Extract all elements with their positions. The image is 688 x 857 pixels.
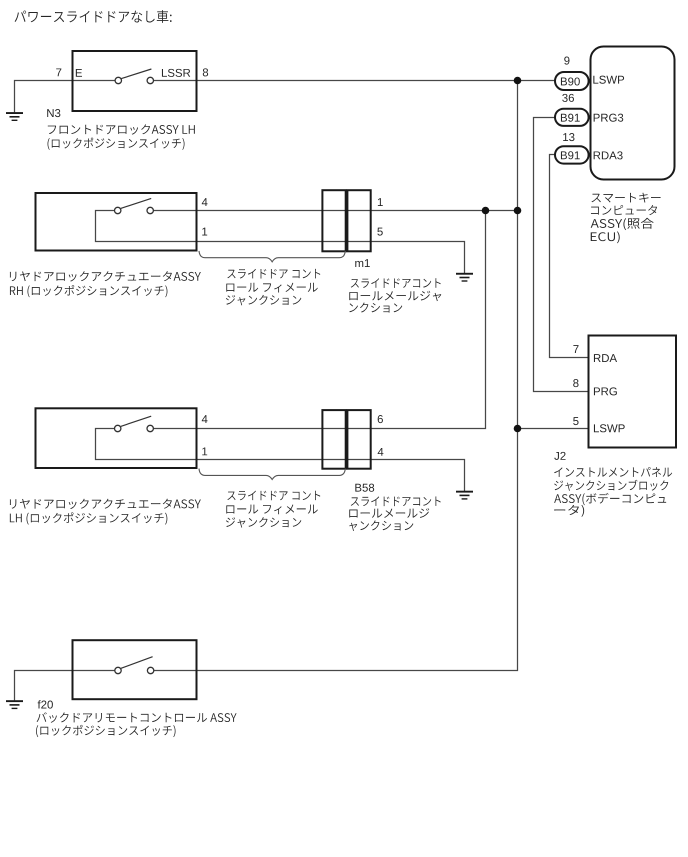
switch box N3 front door lock ASSY LH bbox=[73, 51, 197, 111]
brace female junction LH section bbox=[199, 469, 345, 480]
junction block m1 cell right bbox=[347, 190, 370, 251]
wire: LH actuator pin1 through B58 pin4 to ground bbox=[196, 460, 465, 492]
junction block B58 cell left bbox=[322, 410, 345, 469]
junction dot RH net at branch x=485.8 bbox=[482, 207, 490, 215]
RH description line 1 bbox=[10, 271, 201, 281]
ground at B58 pin 4 bbox=[456, 491, 473, 500]
actuator box RH rear door lock bbox=[36, 193, 197, 251]
wire: ECU B91 PRG3 down to J2 pin 8 PRG bbox=[534, 118, 589, 392]
wire: LH actuator pin4 through B58 pin6 up to RH net bbox=[153, 211, 485, 429]
connector oval B91 RDA3 bbox=[555, 146, 589, 163]
pin 5 label J2 bbox=[573, 417, 578, 425]
LH description line 2 bbox=[10, 512, 167, 524]
connector oval B90 bbox=[555, 72, 589, 90]
pin 13 label ECU bbox=[563, 133, 574, 141]
pin 8 label J2 bbox=[573, 379, 578, 387]
designator m1 bbox=[355, 259, 370, 267]
female junction RH label line 3 bbox=[226, 295, 301, 306]
connector oval B91 PRG3 bbox=[555, 109, 589, 126]
female junction RH label line 1 bbox=[227, 269, 320, 279]
pin 1 label RH bbox=[202, 228, 207, 236]
connector text B90 bbox=[561, 77, 580, 85]
ECU pin name RDA3 bbox=[594, 151, 623, 159]
switch N3 contacts and lever bbox=[115, 69, 153, 84]
pin 4 label LH bbox=[202, 415, 208, 423]
wire: ground to N3 pin 7 and through-switch to pin 8 feed bbox=[15, 81, 116, 113]
B58 label line 3 bbox=[349, 520, 413, 531]
m1 label line 2 bbox=[349, 291, 441, 301]
J2 pin name LSWP bbox=[594, 424, 625, 432]
switch RH contacts and lever bbox=[115, 198, 154, 213]
designator B58 bbox=[355, 484, 374, 492]
connector text B91 upper bbox=[561, 114, 580, 122]
connector box J2 instrument panel junction block bbox=[589, 336, 677, 448]
connector text B91 lower bbox=[561, 151, 580, 159]
J2 description line 4 bbox=[554, 505, 584, 517]
pin LSSR label N3 bbox=[162, 69, 190, 77]
m1 label line 3 bbox=[349, 303, 402, 313]
ECU label line 4 bbox=[591, 231, 620, 243]
ground at f20 bbox=[6, 700, 23, 709]
N3 description line 2 bbox=[48, 138, 185, 150]
B58 label line 2 bbox=[349, 508, 429, 518]
switch f20 contacts and lever bbox=[115, 657, 154, 674]
ECU label line 1 bbox=[591, 193, 660, 203]
f20 description line 1 bbox=[37, 712, 237, 722]
J2 description line 1 bbox=[554, 467, 672, 477]
wire: N3 pin 8 to ECU B90 LSWP (net LSWP) bbox=[154, 80, 556, 82]
junction dot trunk to J2 pin 5 bbox=[514, 425, 522, 433]
ECU label line 3 bbox=[591, 218, 654, 230]
pin 7 label J2 bbox=[573, 345, 578, 353]
junction block B58 cell right bbox=[347, 410, 370, 469]
pin 8 label N3 bbox=[203, 68, 208, 76]
wire: ECU B91 RDA3 down to J2 pin 7 RDA bbox=[550, 155, 589, 358]
designator J2 bbox=[554, 452, 565, 460]
junction block m1 cell left bbox=[322, 190, 345, 251]
wire: RH actuator internal link pin4 circle to pin1 bbox=[96, 211, 197, 242]
pin 5 label m1 bbox=[377, 228, 382, 236]
pin 4 label B58 bbox=[378, 448, 384, 456]
J2 pin name PRG bbox=[594, 387, 617, 395]
wire: RH actuator pin1 through m1 pin5 to ground bbox=[196, 242, 465, 274]
wire: LH actuator internal link bbox=[96, 429, 197, 460]
pin 36 label ECU bbox=[562, 94, 574, 102]
pin 1 label LH bbox=[202, 447, 207, 455]
switch box f20 back door remote control ASSY bbox=[73, 640, 197, 699]
m1 label line 1 bbox=[351, 278, 441, 288]
B58 label line 1 bbox=[351, 496, 441, 506]
N3 description line 1 bbox=[48, 124, 195, 134]
ground at m1 pin 5 bbox=[456, 273, 473, 282]
f20 description line 2 bbox=[36, 725, 176, 737]
female junction LH label line 3 bbox=[226, 517, 301, 528]
pin E label N3 bbox=[76, 69, 82, 77]
ECU pin name PRG3 bbox=[594, 114, 624, 122]
pin 4 label RH bbox=[202, 198, 208, 206]
ECU label line 2 bbox=[591, 205, 657, 215]
actuator box LH rear door lock bbox=[36, 408, 197, 468]
female junction LH label line 1 bbox=[227, 491, 320, 501]
title text bbox=[15, 10, 172, 23]
LH description line 1 bbox=[10, 499, 201, 509]
ECU pin name LSWP bbox=[593, 76, 624, 84]
female junction LH label line 2 bbox=[226, 504, 317, 514]
brace female junction RH section bbox=[199, 251, 345, 262]
designator f20 bbox=[38, 700, 53, 708]
junction dot RH net at trunk bbox=[514, 207, 522, 215]
female junction RH label line 2 bbox=[226, 283, 317, 293]
pin 9 label ECU bbox=[564, 57, 569, 65]
J2 pin name RDA bbox=[594, 354, 617, 362]
ground at N3 bbox=[6, 112, 23, 121]
J2 description line 2 bbox=[554, 480, 668, 491]
pin 6 label B58 bbox=[378, 415, 383, 423]
J2 description line 3 bbox=[554, 493, 666, 505]
pin 1 label m1 bbox=[378, 198, 383, 206]
ECU box smart key computer ASSY bbox=[591, 47, 675, 180]
junction dot LSWP net at trunk top bbox=[514, 77, 522, 85]
wire: trunk vertical LSWP net x=517 down to backdoor switch, left to ground bbox=[15, 81, 518, 701]
designator N3 bbox=[47, 109, 60, 117]
wire: RH actuator pin4 to trunk (through m1 junction pins 1) bbox=[153, 210, 517, 212]
wire: trunk to J2 pin 5 LSWP bbox=[518, 428, 589, 430]
RH description line 2 bbox=[10, 285, 168, 297]
pin 7 label N3 bbox=[56, 68, 61, 76]
switch LH contacts and lever bbox=[115, 416, 154, 431]
